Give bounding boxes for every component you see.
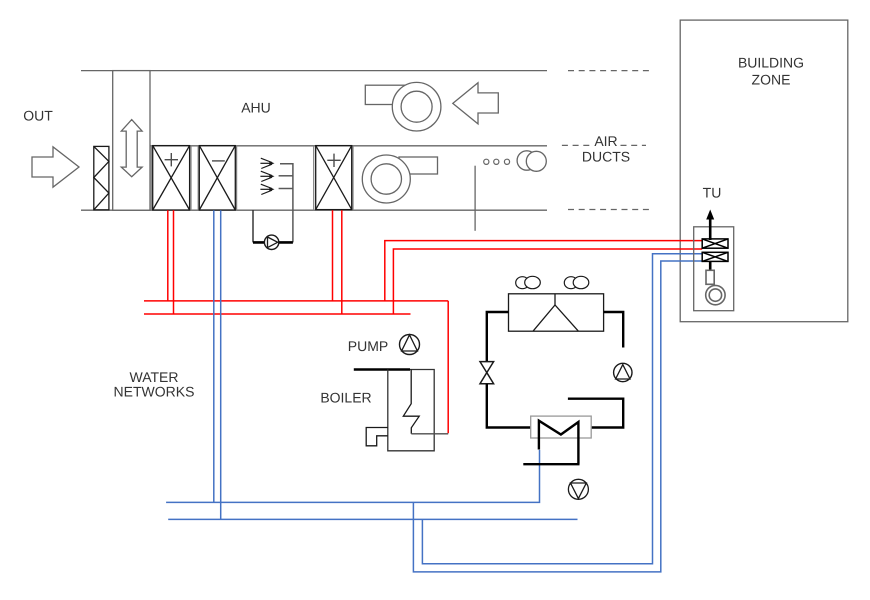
boiler drain fitting [366,428,388,446]
duct middle line [150,145,547,147]
svg-text:AIR: AIR [594,133,617,149]
evaporator drain line [523,463,579,465]
refrigerant pipe to evaporator [487,384,531,428]
humidifier spray arrow 1 [260,158,272,168]
cooling coil box - [199,146,235,210]
sensor line in supply duct [474,166,476,231]
red drop to boiler [447,301,449,433]
blue drop inner [422,254,702,564]
boiler inlet pipe [354,368,410,371]
blue chilled water line 1 [166,450,539,503]
boiler body [388,370,434,451]
blue chilled water line 2 [168,518,577,520]
blue drop outer [413,261,702,572]
svg-text:AHU: AHU [241,100,271,116]
minus sign cooling coil [212,160,225,162]
refrigerant pipe right [604,312,624,348]
heating coil box + [153,146,190,210]
svg-text:BUILDING: BUILDING [738,54,804,70]
condenser unit box [509,294,604,331]
condenser fan pair 2 [564,277,577,289]
refrigerant suction pipe [568,399,623,428]
outdoor air arrow [32,147,79,187]
AHU section divider left of heating coil [190,146,192,210]
TU box [694,227,734,311]
AHU section divider far left [150,146,152,210]
svg-text:BOILER: BOILER [320,389,371,405]
dashed duct line middle left [562,144,592,146]
TU heating coil [702,239,728,248]
dashed duct line middle right [621,144,647,146]
red manifold line 2 [144,313,411,315]
red riser reheat coil supply [332,210,334,301]
AHU section divider right of cooling coil [236,146,238,210]
svg-text:ZONE: ZONE [752,71,791,87]
red manifold line 1 [144,300,448,302]
svg-text:NETWORKS: NETWORKS [114,384,195,400]
humidifier spray arrow 3 [260,184,272,194]
TU supply arrow [709,218,712,240]
condenser triangle [533,305,578,331]
expansion valve [480,362,494,373]
boiler pipe connector [411,433,448,435]
humidifier pump [264,235,278,249]
supply fan (bottom row) [399,157,438,174]
refrigerant pipe left [487,312,509,362]
blue riser cooling coil supply [213,210,215,502]
mixing box double arrow [121,120,142,177]
sensor dots [484,159,510,164]
return fan (top row) [365,85,410,104]
AHU mixing box [113,71,150,211]
svg-text:PUMP: PUMP [348,338,388,354]
boiler heating element [403,370,419,434]
humidifier spray arrow 2 [260,171,272,181]
TU fan outlet [706,270,714,284]
dashed duct line bottom [568,209,654,211]
pump symbol [400,335,420,355]
dashed duct line top [568,70,654,72]
reheat coil box + [316,146,352,210]
plus sign heating coil [165,153,178,166]
filter F [94,146,109,209]
red return line from TU [393,249,702,314]
compressor [614,363,632,381]
red riser reheat coil return [341,210,343,314]
sensor double circle [517,151,536,170]
red riser heating coil return [173,210,175,314]
condenser fan pair 1 [516,277,529,289]
humidifier header pipe [279,164,293,243]
duct top line [81,70,547,72]
building zone box [680,20,848,322]
humidifier water loop [252,210,254,242]
AHU section divider left of reheat coil [313,146,315,210]
svg-text:OUT: OUT [23,108,53,124]
plus sign reheat coil [327,154,340,167]
TU fan [706,285,725,304]
TU cooling coil [702,252,728,261]
svg-text:DUCTS: DUCTS [582,148,630,164]
return air arrow [453,83,499,124]
chilled water pump [568,479,588,499]
TU coil connector [709,261,712,271]
evaporator coil [539,421,579,465]
svg-text:TU: TU [703,185,722,201]
AHU section divider right of heating coil [197,146,199,210]
evaporator shell [531,416,592,438]
duct bottom line [81,209,547,211]
red supply line to TU [385,241,702,301]
red riser heating coil supply [167,210,169,301]
blue riser cooling coil return [220,210,222,519]
AHU section divider right of reheat coil [352,146,354,210]
